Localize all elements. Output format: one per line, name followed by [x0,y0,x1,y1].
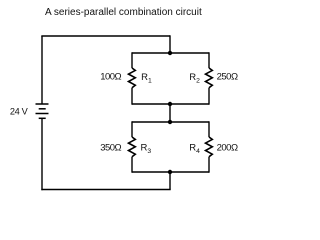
svg-text:350Ω: 350Ω [100,142,121,153]
battery B1 plate short bottom [39,117,46,119]
wire: block2 bottom rail [132,171,209,173]
wire: feed drop to block1 top rail [169,35,171,53]
node: block1 top junction dot [168,51,172,55]
svg-text:A series-parallel combination: A series-parallel combination circuit [45,7,202,18]
node: block2 bottom junction dot [168,170,172,174]
node: block2 top junction dot [168,120,172,124]
svg-text:100Ω: 100Ω [100,72,121,83]
resistor R4 (zigzag) [206,137,213,157]
wire: R1 bottom lead [131,88,133,105]
svg-text:R1: R1 [141,72,152,85]
battery B1 plate long bottom [36,113,49,115]
wire: block2 top rail [132,121,209,123]
wire: R2 top lead [208,52,210,68]
svg-text:250Ω: 250Ω [217,72,238,83]
wire: left vertical top (battery + to top-left corner) [41,36,43,104]
wire: R3 bottom lead [131,157,133,173]
wire: top feed horizontal [41,35,170,37]
wire: left vertical bottom (battery - to bottom-left corner) [41,118,43,190]
wire: R3 top lead [131,121,133,137]
wire: bottom return horizontal [41,189,170,191]
resistor R1 (zigzag) [129,68,136,88]
svg-text:R2: R2 [189,72,200,85]
svg-text:24 V: 24 V [10,106,29,116]
resistor R2 (zigzag) [206,68,213,88]
svg-text:200Ω: 200Ω [217,142,238,153]
wire: R4 bottom lead [208,157,210,173]
svg-text:R4: R4 [189,142,200,155]
wire: block1 bottom rail [132,103,209,105]
wire: connector between blocks [169,104,171,122]
battery B1 plate short [39,108,46,110]
wire: return drop from block2 [169,172,171,190]
svg-text:R3: R3 [141,142,152,155]
wire: R1 top lead [131,52,133,68]
wire: block1 top rail [132,52,209,54]
battery B1 plate long top [36,103,49,105]
wire: R2 bottom lead [208,88,210,105]
node: block1 bottom junction dot [168,102,172,106]
wire: R4 top lead [208,121,210,137]
resistor R3 (zigzag) [129,137,136,157]
